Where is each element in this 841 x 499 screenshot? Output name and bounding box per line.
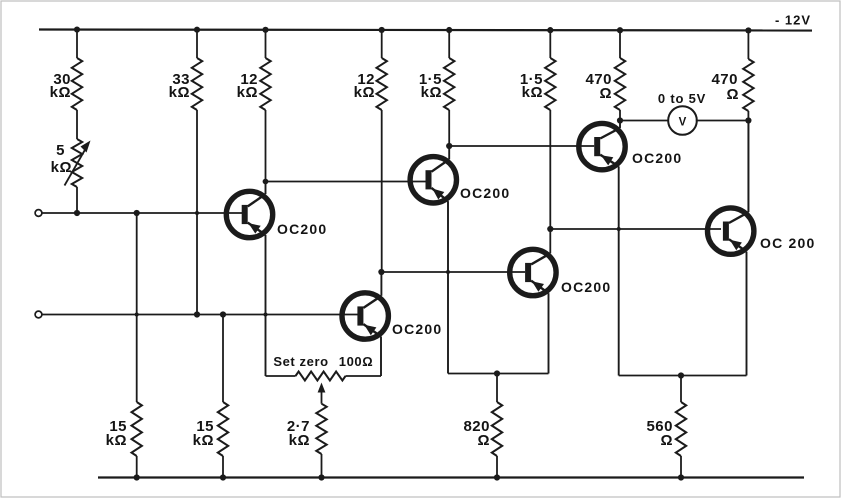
junction dots input line 2 xyxy=(194,311,226,317)
transistor Q5 OC200 xyxy=(579,121,625,376)
wire rail to R 12k first xyxy=(265,30,267,59)
resistor 560Ω xyxy=(646,402,686,456)
wire 33k down to input line 2 xyxy=(196,110,198,315)
node 820 top xyxy=(494,370,500,376)
svg-text:OC 200: OC 200 xyxy=(760,235,815,251)
input terminal 2 xyxy=(35,311,42,318)
voltmeter V xyxy=(668,106,697,135)
transistor Q4 OC200 xyxy=(510,249,556,373)
wire 1.5k1 to Q2 collector node xyxy=(448,110,450,146)
resistor 2.7kΩ xyxy=(287,404,327,454)
wire bus to R 820 xyxy=(496,374,498,403)
junction dots ground rail xyxy=(134,474,685,480)
resistor 1.5kΩ first xyxy=(419,58,455,110)
wire rail to R 470 second xyxy=(747,30,749,59)
wire bus to R 560 xyxy=(680,376,682,403)
svg-text:kΩ: kΩ xyxy=(289,432,310,449)
potentiometer Set zero 100Ω xyxy=(296,372,346,381)
junction dots on -12V rail xyxy=(74,26,752,33)
svg-text:kΩ: kΩ xyxy=(522,84,543,101)
svg-text:5: 5 xyxy=(56,142,65,159)
svg-text:OC200: OC200 xyxy=(561,279,611,295)
wire Q4 collector node to Q6 base xyxy=(550,228,721,230)
svg-text:OC200: OC200 xyxy=(392,321,442,337)
svg-text:kΩ: kΩ xyxy=(106,432,127,449)
svg-text:100Ω: 100Ω xyxy=(339,354,374,369)
input terminal 1 xyxy=(35,210,42,217)
svg-text:kΩ: kΩ xyxy=(421,84,442,101)
wire Q3 collector to Q4 base xyxy=(381,271,525,273)
node 560 top xyxy=(678,372,684,378)
label -12V xyxy=(775,13,811,28)
label Q5 OC200 xyxy=(632,150,682,166)
svg-text:kΩ: kΩ xyxy=(237,84,258,101)
wire rail to R 33k xyxy=(196,30,198,59)
wire meter node down to Q6 collector xyxy=(747,121,749,213)
ground rail 0V xyxy=(98,476,804,478)
wire rail to R 1.5k first xyxy=(448,30,450,59)
resistor 820Ω xyxy=(463,402,502,456)
transistor Q1 OC200 xyxy=(226,182,272,377)
resistor 15kΩ second xyxy=(193,402,229,456)
label Set zero 100Ω xyxy=(273,354,373,369)
svg-text:kΩ: kΩ xyxy=(50,84,71,101)
junction dots input line 1 xyxy=(74,210,140,216)
svg-text:Ω: Ω xyxy=(726,86,739,103)
wire Q1 emitter to pot left xyxy=(266,375,296,377)
svg-text:OC200: OC200 xyxy=(277,221,327,237)
resistor 470Ω first xyxy=(585,58,625,110)
resistor 15kΩ first xyxy=(106,402,142,456)
resistor 1.5kΩ second xyxy=(520,58,556,110)
wire 15k2 to rail xyxy=(222,456,224,478)
label Q3 OC200 xyxy=(392,321,442,337)
transistor Q3 OC200 xyxy=(342,272,388,376)
wire 470-2 to meter node xyxy=(747,111,749,121)
node Q4 collector xyxy=(547,226,553,232)
wire 5k to input line 1 xyxy=(76,187,78,213)
power rail -12V xyxy=(39,30,812,31)
wire Q2 collector to Q5 base xyxy=(449,145,594,147)
svg-text:V: V xyxy=(679,117,687,129)
node Q1 collector xyxy=(263,179,269,185)
wire 2.7k to rail xyxy=(321,454,323,478)
resistor 470Ω second xyxy=(711,59,753,111)
wire input1 to R 15k first xyxy=(136,213,138,402)
wire voltmeter to 470-2 node xyxy=(696,120,749,122)
wire emitter bus Q5-Q6 xyxy=(619,375,747,377)
resistor 33kΩ xyxy=(169,58,203,110)
svg-text:kΩ: kΩ xyxy=(51,159,72,176)
wire 560 to rail xyxy=(680,456,682,478)
label 5kΩ xyxy=(51,142,72,176)
resistor 12kΩ second xyxy=(354,58,387,110)
pot right wire to Q3 emitter xyxy=(346,375,382,377)
wire meter node to voltmeter xyxy=(620,120,668,122)
5k arrow xyxy=(65,141,91,186)
svg-text:- 12V: - 12V xyxy=(775,13,811,28)
svg-text:Ω: Ω xyxy=(599,85,612,102)
label Q1 OC200 xyxy=(277,221,327,237)
wire rail to R 12k second xyxy=(381,30,383,59)
label 0 to 5V xyxy=(658,91,706,106)
input line 2 wire to Q3 base xyxy=(42,314,358,316)
wire rail to R 30k xyxy=(76,30,78,59)
input line 1 wire to Q1 base xyxy=(42,212,242,214)
variable resistor 5kΩ xyxy=(72,139,82,187)
wire 1.5k2 to Q6 base node xyxy=(549,110,551,229)
wire emitter bus Q2-Q4 xyxy=(448,373,549,375)
svg-text:Set zero: Set zero xyxy=(273,354,328,369)
label Q6 OC200 xyxy=(760,235,815,251)
wire 15k1 to rail xyxy=(136,456,138,478)
svg-text:kΩ: kΩ xyxy=(193,432,214,449)
svg-text:OC200: OC200 xyxy=(460,185,510,201)
node Q2 collector xyxy=(446,143,452,149)
node meter right xyxy=(745,117,751,123)
wire rail to R 1.5k second xyxy=(549,30,551,59)
wire Q1 collector to Q2 base xyxy=(266,181,427,183)
svg-text:Ω: Ω xyxy=(660,432,673,449)
wire input2 to R 15k second xyxy=(222,315,224,403)
resistor 30kΩ xyxy=(50,58,83,110)
svg-text:0 to 5V: 0 to 5V xyxy=(658,91,706,106)
resistor 12kΩ first xyxy=(237,58,271,110)
wire rail to R 470 first xyxy=(619,30,621,59)
wire 12k to Q1 collector node xyxy=(265,110,267,182)
wire 470-1 to meter node xyxy=(619,110,621,121)
svg-text:OC200: OC200 xyxy=(632,150,682,166)
wire 12k2 to Q3 collector node xyxy=(381,110,383,272)
transistor Q2 OC200 xyxy=(410,146,456,374)
node Q3 collector xyxy=(378,269,384,275)
label Q2 OC200 xyxy=(460,185,510,201)
svg-text:kΩ: kΩ xyxy=(169,84,190,101)
label Q4 OC200 xyxy=(561,279,611,295)
wire Q6 base node down to Q4 collector xyxy=(549,229,551,253)
svg-text:kΩ: kΩ xyxy=(354,84,375,101)
wire 820 to rail xyxy=(496,456,498,478)
svg-text:Ω: Ω xyxy=(477,432,490,449)
pot wiper arrow xyxy=(318,383,326,404)
crossing blobs (scan ink) xyxy=(135,211,621,317)
wire 30k to 5k xyxy=(76,110,78,139)
transistor Q6 OC200 xyxy=(708,123,754,376)
node meter left xyxy=(617,117,623,123)
